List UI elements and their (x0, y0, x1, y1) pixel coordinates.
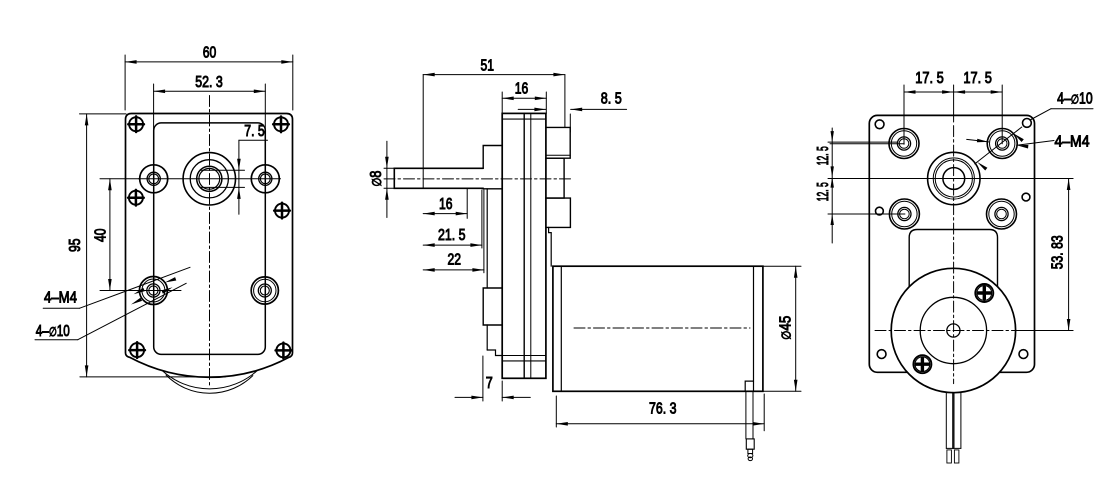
corner hole top-right rear (1023, 119, 1032, 128)
label 4-dia10 rear (975, 91, 1093, 171)
dimension diameter 45 (763, 266, 801, 391)
label 4-M4 front (35, 267, 190, 340)
horizontal centerline bottom-left hole (128, 290, 182, 292)
svg-text:95: 95 (67, 238, 84, 252)
front view inner housing rounded rect (154, 123, 266, 355)
dimension 52.3 (154, 74, 266, 175)
dimension 12.5 pair (815, 128, 898, 243)
screw top-left (128, 116, 144, 132)
rear boss block 2 (546, 158, 564, 198)
rear boss block 3 (546, 198, 571, 227)
svg-text:4–M4: 4–M4 (44, 289, 77, 306)
label 4-M4 rear (967, 134, 1090, 151)
screw bottom-right (276, 343, 292, 359)
corner hole top-left rear (875, 120, 884, 129)
screw mid-left (128, 190, 144, 206)
svg-text:8. 5: 8. 5 (601, 91, 622, 108)
horizontal centerline through top holes (139, 178, 281, 180)
front boss block upper (483, 146, 502, 189)
dimension 22 (423, 190, 484, 273)
svg-text:53. 83: 53. 83 (1050, 235, 1067, 269)
rear lower holes centerline (828, 213, 905, 215)
mid hole left rear (876, 207, 884, 215)
svg-text:40: 40 (93, 228, 110, 242)
motor body arc behind plate (166, 375, 253, 393)
hole rear bottom-left (889, 199, 919, 229)
dimension diameter 8 (368, 141, 394, 217)
dimension 21.5 (423, 190, 482, 248)
dimension 16 lower (423, 189, 467, 218)
dimension 95 (67, 114, 225, 377)
svg-text:17. 5: 17. 5 (963, 70, 992, 87)
svg-text:4–∅10: 4–∅10 (1057, 91, 1093, 108)
mid hole right rear (1022, 193, 1030, 201)
svg-text:7: 7 (486, 375, 493, 392)
front boss web (487, 189, 502, 356)
wires rear view (946, 392, 961, 463)
dimension 60 (125, 45, 293, 111)
dimension 7.5 (237, 123, 267, 214)
svg-text:52. 3: 52. 3 (195, 74, 223, 91)
motor body side view (553, 266, 763, 391)
screw bottom-left (129, 342, 145, 358)
hole rear top-left (889, 129, 919, 159)
motor screw upper (975, 284, 993, 302)
output shaft boss circles (183, 153, 235, 205)
corner hole bottom-left rear (877, 350, 886, 359)
svg-text:17. 5: 17. 5 (915, 70, 944, 87)
svg-text:76. 3: 76. 3 (649, 401, 677, 418)
rear step strip (549, 227, 552, 266)
hole top-left (140, 165, 168, 193)
screw top-right (273, 117, 289, 133)
hole rear top-right (987, 129, 1017, 159)
rear boss block 1 (546, 127, 570, 158)
dimension 40 (93, 179, 140, 291)
svg-text:22: 22 (448, 252, 462, 269)
output shaft side view (394, 168, 483, 188)
dimension 8.5 (518, 91, 626, 133)
motor terminal notch (745, 381, 753, 391)
dimension 53.83 (985, 179, 1073, 331)
shaft axis centerline (384, 178, 574, 180)
wires side view (746, 391, 753, 439)
rear boss centerline (828, 178, 1073, 180)
vertical centerline front view (209, 96, 211, 389)
svg-text:4–M4: 4–M4 (1055, 134, 1090, 151)
svg-text:12. 5: 12. 5 (815, 182, 832, 201)
dimension 76.3 (556, 394, 764, 431)
hole bottom-left (139, 277, 167, 305)
dimension 51 (423, 57, 565, 168)
rear motor circle (891, 268, 1015, 392)
svg-text:4–∅10: 4–∅10 (36, 323, 70, 340)
connector plug side view (746, 439, 754, 461)
front view plate outline (126, 114, 293, 378)
svg-text:60: 60 (203, 45, 217, 62)
hole bottom-right (251, 277, 278, 304)
dimension 17.5 left (904, 70, 954, 144)
bore flat lines 7.5 (201, 170, 245, 187)
svg-text:16: 16 (515, 80, 529, 97)
svg-text:51: 51 (481, 57, 495, 74)
svg-text:16: 16 (439, 196, 453, 213)
svg-text:7. 5: 7. 5 (244, 123, 265, 140)
svg-text:21. 5: 21. 5 (438, 227, 466, 244)
dimension 16 top (502, 80, 546, 113)
svg-text:12. 5: 12. 5 (815, 146, 832, 165)
corner hole bottom-right rear (1019, 350, 1028, 359)
motor flange arc behind plate (162, 370, 257, 389)
dimension 17.5 right (954, 70, 1003, 144)
motor screw lower (913, 355, 931, 373)
rear vertical centerline (953, 126, 955, 384)
screw mid-right (274, 203, 290, 219)
svg-text:∅8: ∅8 (368, 170, 385, 186)
side view gearbox plate (502, 113, 546, 378)
hole rear bottom-right (987, 199, 1017, 229)
rear motor centerline (875, 330, 1073, 332)
rear top holes centerline (830, 143, 904, 145)
front boss block lower (483, 288, 502, 325)
rear view plate outline (869, 115, 1034, 372)
hole top-right (251, 165, 279, 193)
rear center boss (928, 152, 980, 204)
dimension 7 (455, 356, 530, 401)
motor axis centerline (574, 327, 750, 329)
rear inner housing rect (909, 230, 997, 288)
svg-text:∅45: ∅45 (778, 316, 795, 340)
